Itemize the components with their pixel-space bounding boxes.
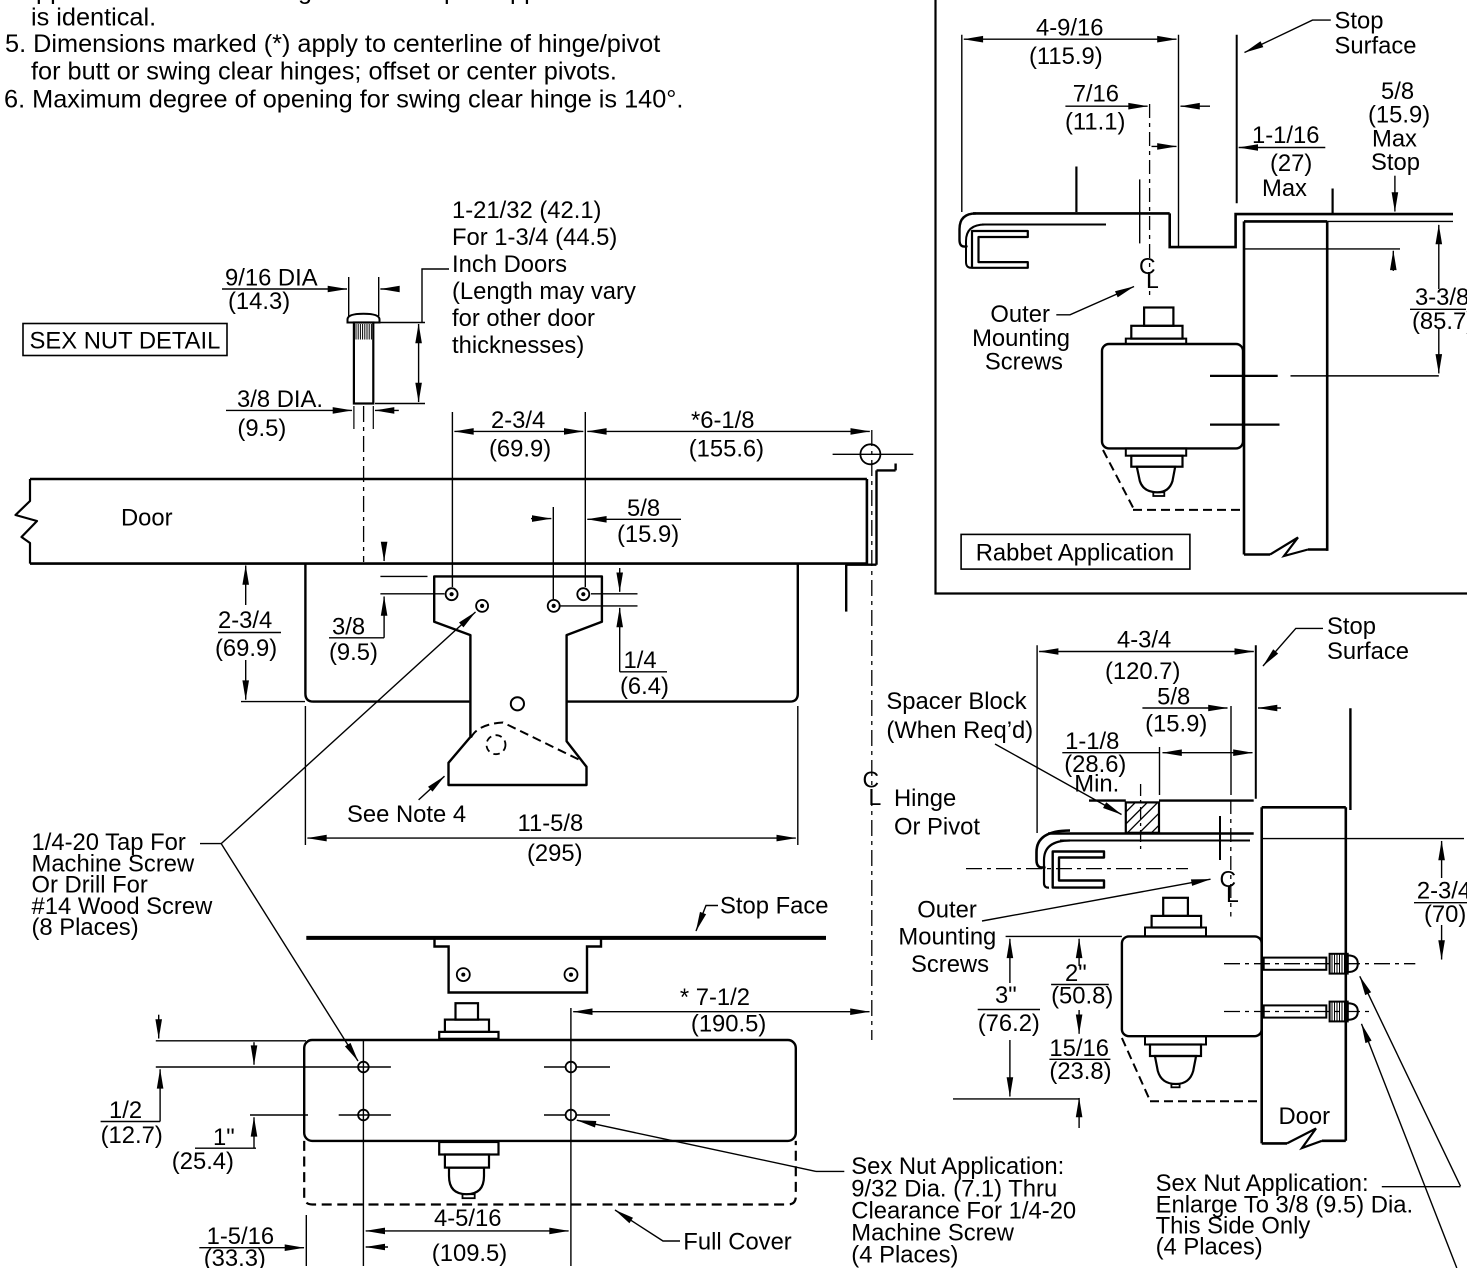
svg-text:Outer: Outer bbox=[917, 896, 977, 923]
svg-text:Max: Max bbox=[1262, 175, 1307, 202]
outer screw centerline (lower) bbox=[1230, 706, 1232, 795]
sex nut bolt cap bbox=[348, 314, 380, 323]
dim 4-3/4 (120.7) bbox=[1036, 645, 1038, 833]
dim 2 inch (50.8) bbox=[1078, 939, 1080, 966]
svg-text:5. Dimensions marked (*) apply: 5. Dimensions marked (*) apply to center… bbox=[5, 30, 660, 58]
svg-text:(50.8): (50.8) bbox=[1051, 982, 1113, 1009]
SEX NUT DETAIL label box bbox=[23, 324, 227, 356]
spindle top (rabbet) bbox=[1144, 308, 1173, 326]
svg-text:(15.9): (15.9) bbox=[617, 521, 679, 548]
svg-text:(Length may vary: (Length may vary bbox=[452, 278, 636, 305]
spindle top (lower) bbox=[1163, 898, 1188, 916]
mounting plate (plan) bbox=[305, 564, 469, 702]
notes text top-left bbox=[4, 0, 683, 114]
outer screw centerline (rabbet) bbox=[1149, 104, 1151, 296]
svg-text:See Note 4: See Note 4 bbox=[347, 801, 466, 828]
bracket screw A bbox=[446, 588, 458, 600]
svg-text:For 1-3/4 (44.5): For 1-3/4 (44.5) bbox=[452, 224, 617, 251]
svg-text:(33.3): (33.3) bbox=[204, 1245, 266, 1268]
tap hole cross lines bbox=[156, 1066, 391, 1068]
closer body (rabbet side) bbox=[1102, 344, 1243, 448]
svg-text:(4 Places): (4 Places) bbox=[851, 1242, 958, 1268]
hidden cam dashed bbox=[471, 723, 579, 760]
svg-text:(9.5): (9.5) bbox=[237, 415, 286, 442]
screw row extension lines right bbox=[591, 593, 638, 595]
svg-text:Stop: Stop bbox=[1327, 613, 1376, 640]
clip wrap (rabbet) bbox=[960, 213, 977, 246]
soffit bracket screw right bbox=[565, 968, 578, 981]
full cover leader bbox=[615, 1210, 680, 1241]
dim 4-9/16 (115.9) bbox=[961, 35, 963, 212]
svg-text:1/2: 1/2 bbox=[109, 1097, 142, 1124]
svg-text:(69.9): (69.9) bbox=[215, 635, 277, 662]
svg-text:3-3/8: 3-3/8 bbox=[1415, 284, 1467, 311]
wall tick marks bbox=[1075, 167, 1077, 213]
svg-text:(14.3): (14.3) bbox=[228, 288, 290, 315]
svg-text:for butt or swing clear hinges: for butt or swing clear hinges; offset o… bbox=[31, 58, 617, 86]
soffit bracket (front) bbox=[435, 939, 602, 993]
svg-text:3/8: 3/8 bbox=[332, 614, 365, 641]
svg-text:(155.6): (155.6) bbox=[689, 436, 764, 463]
dim bolt length arrows bbox=[418, 324, 420, 363]
svg-text:(120.7): (120.7) bbox=[1105, 658, 1180, 685]
leader 1/4-20 tap bbox=[200, 843, 221, 845]
closer body (front) bbox=[304, 1040, 796, 1141]
svg-text:SEX NUT DETAIL: SEX NUT DETAIL bbox=[30, 328, 221, 355]
bracket screw D bbox=[577, 588, 589, 600]
svg-text:Door: Door bbox=[1279, 1103, 1331, 1130]
dim 2-3/4 (70) bbox=[1262, 838, 1464, 840]
bottom reference line bbox=[953, 1098, 1079, 1100]
spacer block hatched bbox=[1126, 802, 1159, 832]
bracket screw C bbox=[548, 600, 560, 612]
svg-text:1-21/32 (42.1): 1-21/32 (42.1) bbox=[452, 197, 602, 224]
svg-text:p: p bbox=[444, 0, 458, 5]
svg-text:Spacer Block: Spacer Block bbox=[886, 688, 1026, 715]
svg-text:2-3/4: 2-3/4 bbox=[491, 407, 545, 434]
arm lines through door bbox=[1210, 375, 1278, 377]
svg-text:(295): (295) bbox=[527, 840, 583, 867]
tap holes bbox=[358, 1062, 369, 1073]
sex nut note right leaders bbox=[1382, 1186, 1461, 1188]
bolt note text bbox=[452, 197, 636, 359]
stop face line bbox=[306, 936, 826, 940]
sex nut knurl bbox=[356, 324, 371, 340]
svg-text:3": 3" bbox=[995, 982, 1017, 1009]
door left break bbox=[16, 479, 38, 564]
svg-text:(12.7): (12.7) bbox=[101, 1122, 163, 1149]
body top extension (lower) bbox=[1006, 935, 1122, 937]
svg-text:Door: Door bbox=[121, 505, 173, 532]
hinge horizontal centerline bbox=[966, 868, 1188, 870]
rabbet application box border bbox=[936, 0, 1467, 594]
svg-text:3/8 DIA.: 3/8 DIA. bbox=[237, 386, 323, 413]
svg-text:Full Cover: Full Cover bbox=[683, 1229, 792, 1256]
svg-text:(4 Places): (4 Places) bbox=[1156, 1234, 1263, 1261]
tap note text bbox=[32, 829, 214, 941]
dim 2-3/4 (69.9) top bbox=[451, 412, 453, 587]
svg-text:(23.8): (23.8) bbox=[1049, 1058, 1111, 1085]
door (plan view) bbox=[30, 478, 867, 481]
dim *7-1/2 (190.5) bbox=[573, 1011, 700, 1013]
bracket center hole bbox=[511, 697, 524, 710]
svg-text:6. Maximum degree of opening f: 6. Maximum degree of opening for swing c… bbox=[4, 86, 683, 114]
svg-text:Stop: Stop bbox=[1335, 8, 1384, 35]
dim *6-1/8 (155.6) bbox=[587, 430, 728, 432]
tap hole column lines bbox=[362, 1040, 364, 1266]
leader bracket to bolt note bbox=[422, 269, 449, 323]
dim 5/8 (15.9) plan bbox=[552, 507, 554, 599]
svg-text:Rabbet Application: Rabbet Application bbox=[976, 540, 1174, 567]
outer mounting screws label (rabbet) bbox=[972, 301, 1070, 376]
svg-text:5/8: 5/8 bbox=[1157, 684, 1190, 711]
door top extension line bbox=[1327, 220, 1453, 222]
svg-text:L: L bbox=[1226, 881, 1239, 907]
hidden cover dashed (lower) bbox=[1122, 1038, 1150, 1101]
5/8 max stop label bbox=[1368, 78, 1430, 176]
sex nut note right bbox=[1156, 1170, 1414, 1261]
svg-text:(109.5): (109.5) bbox=[432, 1240, 507, 1267]
svg-text:g: g bbox=[298, 0, 312, 5]
dim 1 inch (25.4) bbox=[253, 1042, 255, 1065]
svg-text:thicknesses): thicknesses) bbox=[452, 332, 584, 359]
svg-text:Hinge: Hinge bbox=[894, 785, 956, 812]
svg-text:Min.: Min. bbox=[1074, 771, 1119, 798]
rabbet application label box bbox=[961, 534, 1190, 569]
svg-text:11-5/8: 11-5/8 bbox=[518, 810, 584, 837]
closer body (lower side) bbox=[1122, 936, 1262, 1036]
svg-text:(70): (70) bbox=[1424, 901, 1466, 928]
svg-text:Stop Face: Stop Face bbox=[720, 893, 828, 920]
stop face leader bbox=[696, 906, 718, 932]
dim 3/8 (9.5) left bbox=[383, 548, 385, 561]
svg-text:(9.5): (9.5) bbox=[329, 639, 378, 666]
svg-text:7/16: 7/16 bbox=[1073, 81, 1119, 108]
svg-text:Mounting: Mounting bbox=[898, 924, 996, 951]
svg-text:(11.1): (11.1) bbox=[1065, 109, 1125, 136]
svg-text:4-5/16: 4-5/16 bbox=[434, 1205, 501, 1232]
svg-text:1": 1" bbox=[213, 1124, 235, 1151]
frame stop (plan) bbox=[875, 470, 877, 564]
svg-text:Stop: Stop bbox=[1371, 149, 1420, 176]
svg-text:5/8: 5/8 bbox=[627, 495, 660, 522]
svg-text:L: L bbox=[869, 784, 882, 810]
dim 11-5/8 (295) bbox=[304, 706, 306, 845]
clip wrap (lower) bbox=[1037, 831, 1071, 868]
frame soffit (lower) bbox=[1089, 799, 1126, 801]
sex nut note left bbox=[851, 1153, 1076, 1268]
bracket screw B bbox=[476, 600, 488, 612]
full cover dashed outline bbox=[304, 1141, 796, 1205]
dim 5/8 (15.9) lower bbox=[1142, 707, 1227, 709]
spindle bottom (lower) bbox=[1145, 1036, 1206, 1044]
hidden cover dashed (rabbet) bbox=[1103, 450, 1133, 508]
svg-text:* 7-1/2: * 7-1/2 bbox=[680, 984, 750, 1011]
stop surface line (lower) bbox=[1255, 645, 1257, 799]
spindle below body bbox=[439, 1142, 498, 1155]
rabbet step bbox=[1170, 213, 1453, 247]
header soffit line bbox=[973, 212, 1170, 215]
svg-text:*6-1/8: *6-1/8 bbox=[691, 407, 755, 434]
svg-text:(When Req’d): (When Req’d) bbox=[886, 717, 1033, 744]
dim 4-5/16 (109.5) bbox=[366, 1230, 465, 1232]
svg-text:(76.2): (76.2) bbox=[978, 1010, 1040, 1037]
sex nut bolt shaft bbox=[354, 323, 373, 404]
dim bolt length extensions bbox=[380, 322, 425, 324]
arm bracket (plan) bbox=[434, 576, 602, 785]
hinge pivot circle bbox=[860, 444, 880, 464]
svg-text:Screws: Screws bbox=[911, 951, 989, 978]
stop depth line bbox=[1244, 248, 1400, 250]
sex bolt upper bbox=[1264, 958, 1327, 970]
svg-text:(190.5): (190.5) bbox=[691, 1010, 766, 1037]
leader sex nut left bbox=[577, 1120, 816, 1171]
svg-text:(85.7): (85.7) bbox=[1412, 308, 1467, 335]
svg-text:(8 Places): (8 Places) bbox=[32, 914, 139, 941]
svg-text:for other door: for other door bbox=[452, 305, 595, 332]
svg-text:L: L bbox=[1146, 267, 1159, 293]
svg-text:(6.4): (6.4) bbox=[620, 673, 669, 700]
svg-text:4-9/16: 4-9/16 bbox=[1036, 14, 1103, 41]
svg-text:(115.9): (115.9) bbox=[1029, 43, 1103, 70]
sex nut shaft edge extensions bbox=[353, 406, 355, 429]
clip channel (lower) bbox=[1053, 852, 1104, 888]
frame edge above door bbox=[1349, 708, 1351, 810]
door slab (lower) bbox=[1262, 806, 1346, 809]
svg-text:1/4: 1/4 bbox=[624, 647, 657, 674]
see note 4 leader bbox=[419, 776, 445, 800]
spindle stack above body bbox=[456, 1003, 479, 1019]
svg-text:Screws: Screws bbox=[985, 349, 1063, 376]
sex bolt lower bbox=[1264, 1005, 1327, 1017]
svg-text:Or Pivot: Or Pivot bbox=[894, 814, 980, 841]
dim 1-1/8 (28.6) Min bbox=[1159, 747, 1161, 795]
svg-text:Inch Doors: Inch Doors bbox=[452, 251, 567, 278]
5/8 max stop arrows bbox=[1394, 176, 1396, 212]
svg-text:(15.9): (15.9) bbox=[1145, 711, 1207, 738]
dim 3-3/8 (85.7) bbox=[1438, 225, 1440, 289]
spacer block leader bbox=[995, 744, 1122, 815]
svg-text:(25.4): (25.4) bbox=[172, 1148, 234, 1175]
sex nut centerline bbox=[363, 406, 365, 562]
svg-text:2-3/4: 2-3/4 bbox=[218, 607, 272, 634]
hinge centerline vertical bbox=[871, 430, 873, 1040]
svg-text:Surface: Surface bbox=[1327, 638, 1409, 665]
stop surface line (rabbet) bbox=[1236, 35, 1238, 203]
stop surface label (rabbet) bbox=[1245, 20, 1331, 52]
spacer block centerline bbox=[1140, 784, 1142, 851]
svg-text:pp: pp bbox=[510, 0, 538, 5]
svg-text:Surface: Surface bbox=[1335, 33, 1417, 60]
dim 3 inch (76.2) bbox=[1009, 939, 1011, 983]
outer mounting screws label (lower) bbox=[898, 896, 996, 978]
stop surface label (lower) bbox=[1263, 628, 1323, 666]
spindle bottom (rabbet) bbox=[1126, 448, 1186, 455]
svg-text:(27): (27) bbox=[1270, 150, 1312, 177]
svg-text:1-1/16: 1-1/16 bbox=[1252, 122, 1319, 149]
svg-text:4-3/4: 4-3/4 bbox=[1117, 627, 1171, 654]
soffit bracket screw left bbox=[457, 968, 470, 981]
svg-text:(69.9): (69.9) bbox=[489, 436, 551, 463]
door slab (rabbet) bbox=[1244, 220, 1327, 223]
clip channel (rabbet) bbox=[972, 231, 1028, 268]
dim 1/4 (6.4) bbox=[619, 568, 621, 592]
mounting plate (lower) bbox=[1048, 832, 1254, 835]
dim 1/2 (12.7) bbox=[156, 1040, 306, 1042]
svg-text:is identical.: is identical. bbox=[31, 4, 156, 32]
